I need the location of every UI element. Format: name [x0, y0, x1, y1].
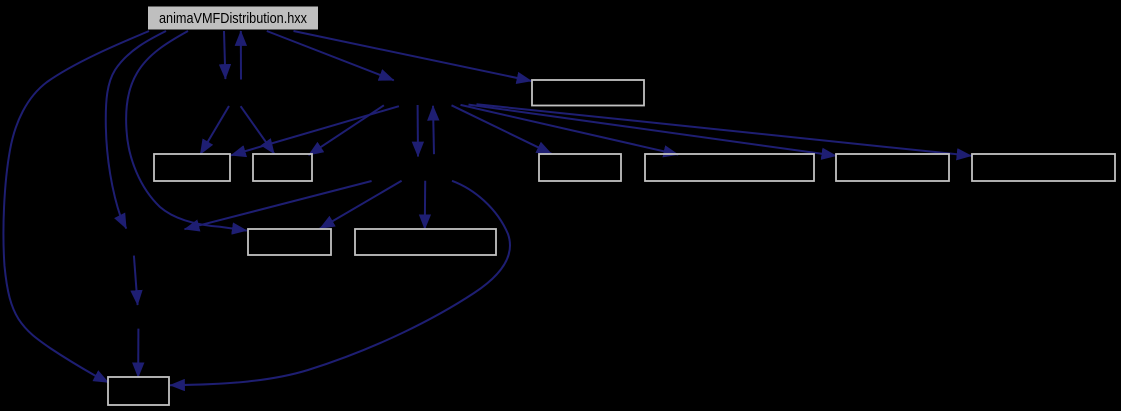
svg-text:animaVMFDistribution.hxx: animaVMFDistribution.hxx [159, 11, 308, 27]
